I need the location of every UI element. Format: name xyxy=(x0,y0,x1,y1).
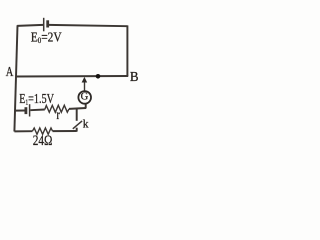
svg-text:E0=2V: E0=2V xyxy=(31,29,63,45)
svg-text:A: A xyxy=(6,64,14,80)
svg-text:E1=1.5V: E1=1.5V xyxy=(19,91,54,107)
svg-text:G: G xyxy=(81,92,89,103)
svg-text:24Ω: 24Ω xyxy=(33,132,53,149)
svg-text:r: r xyxy=(56,107,60,122)
svg-text:k: k xyxy=(83,119,89,131)
svg-text:B: B xyxy=(130,69,139,85)
